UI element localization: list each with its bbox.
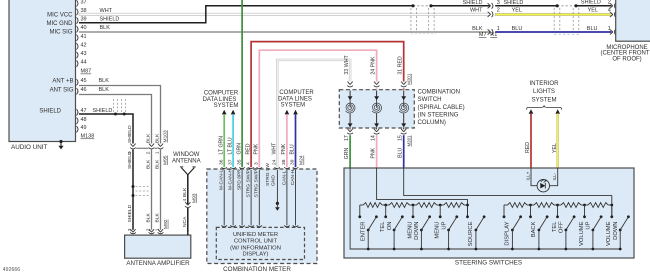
svg-text:M-CAN-H: M-CAN-H: [228, 168, 234, 190]
svg-text:COLUMN): COLUMN): [418, 119, 446, 126]
svg-text:MIC VCC: MIC VCC: [47, 12, 73, 18]
svg-text:UP: UP: [586, 221, 592, 229]
svg-text:ANT SIG: ANT SIG: [50, 87, 74, 93]
svg-text:WINDOW: WINDOW: [173, 152, 200, 158]
svg-text:COMBINATION METER: COMBINATION METER: [223, 266, 291, 273]
svg-text:PNK: PNK: [370, 56, 376, 67]
svg-text:CONTROL UNIT: CONTROL UNIT: [234, 239, 278, 245]
svg-text:COMPUTER: COMPUTER: [279, 90, 314, 96]
svg-text:35: 35: [236, 159, 242, 165]
svg-text:BLK: BLK: [146, 159, 152, 169]
svg-text:YEL: YEL: [588, 8, 598, 14]
svg-text:UNIFIED METER: UNIFIED METER: [233, 232, 278, 238]
svg-text:42: 42: [81, 42, 87, 48]
svg-text:YEL: YEL: [552, 143, 558, 153]
svg-text:ILL+: ILL+: [526, 171, 531, 180]
svg-text:BLK: BLK: [155, 213, 161, 223]
svg-text:4: 4: [245, 162, 251, 165]
svg-text:DISPLAY: DISPLAY: [505, 221, 511, 245]
svg-text:SHIELD: SHIELD: [127, 204, 133, 222]
svg-text:17: 17: [344, 135, 350, 141]
svg-text:BLK: BLK: [155, 159, 161, 169]
svg-text:ON: ON: [387, 222, 393, 231]
svg-text:LT GRN: LT GRN: [218, 136, 224, 155]
svg-text:ANTENNA AMPLIFIER: ANTENNA AMPLIFIER: [126, 260, 190, 267]
svg-text:SHIELD: SHIELD: [127, 125, 133, 143]
svg-text:BLK: BLK: [146, 133, 152, 143]
svg-text:CAN-H: CAN-H: [290, 169, 296, 185]
svg-text:SHIELD: SHIELD: [39, 108, 61, 114]
svg-text:1: 1: [155, 151, 161, 154]
svg-text:DOWN: DOWN: [613, 222, 619, 240]
svg-text:OFF: OFF: [559, 221, 565, 233]
svg-text:40: 40: [81, 25, 87, 31]
svg-text:M92: M92: [163, 219, 169, 229]
svg-text:48: 48: [81, 117, 87, 123]
svg-text:LIGHTS: LIGHTS: [533, 88, 555, 95]
svg-text:33: 33: [344, 69, 350, 75]
svg-text:MENU: MENU: [407, 222, 413, 239]
svg-text:43: 43: [81, 51, 87, 57]
svg-text:37: 37: [227, 159, 233, 165]
svg-text:M138: M138: [81, 134, 95, 140]
svg-text:BLK: BLK: [472, 26, 483, 32]
svg-text:WHT: WHT: [344, 55, 350, 68]
svg-text:WHT: WHT: [271, 142, 277, 155]
svg-text:VOLUME: VOLUME: [579, 221, 585, 246]
svg-text:MIC GND: MIC GND: [47, 21, 74, 27]
svg-text:SHIELD: SHIELD: [127, 151, 133, 169]
svg-text:MENU: MENU: [435, 222, 441, 239]
svg-text:41: 41: [81, 34, 87, 40]
svg-text:WHT: WHT: [470, 7, 483, 13]
svg-text:SWITCH: SWITCH: [418, 96, 442, 103]
svg-text:GND: GND: [270, 175, 276, 186]
svg-text:1: 1: [608, 26, 611, 32]
svg-text:M103: M103: [162, 130, 168, 143]
svg-text:BLU: BLU: [290, 144, 296, 154]
svg-text:BLK: BLK: [182, 187, 188, 197]
svg-text:31: 31: [398, 69, 404, 75]
svg-text:4: 4: [182, 199, 188, 202]
svg-text:39: 39: [290, 159, 296, 165]
svg-text:SYSTEM: SYSTEM: [280, 103, 305, 109]
svg-text:SHIELD: SHIELD: [581, 0, 601, 6]
svg-text:36: 36: [218, 159, 224, 165]
svg-text:ANTENNA: ANTENNA: [172, 159, 201, 165]
svg-text:TEL: TEL: [552, 221, 558, 232]
svg-text:BACK: BACK: [531, 221, 537, 237]
svg-text:1: 1: [497, 26, 500, 32]
svg-text:44: 44: [81, 60, 87, 66]
svg-text:BLU: BLU: [398, 148, 404, 158]
svg-text:STEERING SWITCHES: STEERING SWITCHES: [455, 260, 522, 267]
svg-text:STRG SW/P2: STRG SW/P2: [246, 167, 252, 197]
svg-text:49: 49: [81, 125, 87, 131]
svg-text:39: 39: [81, 17, 87, 23]
svg-text:BLK: BLK: [155, 133, 161, 143]
svg-text:RED: RED: [245, 143, 251, 154]
svg-text:AUDIO UNIT: AUDIO UNIT: [11, 144, 48, 151]
svg-text:(IN STEERING: (IN STEERING: [418, 111, 459, 118]
svg-text:GRN: GRN: [236, 143, 242, 155]
svg-text:SHIELD: SHIELD: [504, 0, 524, 6]
svg-text:PNK: PNK: [370, 147, 376, 158]
svg-text:STRG SW: STRG SW: [265, 163, 271, 186]
svg-text:RED: RED: [525, 142, 531, 153]
svg-text:BLK: BLK: [146, 213, 152, 223]
svg-text:24: 24: [370, 69, 376, 75]
svg-text:2: 2: [497, 7, 500, 13]
svg-text:CAN-L: CAN-L: [281, 170, 287, 185]
svg-text:MIC SIG: MIC SIG: [49, 30, 72, 36]
svg-text:PNK: PNK: [254, 143, 260, 154]
svg-text:3: 3: [497, 0, 500, 6]
svg-text:GRN: GRN: [344, 148, 350, 160]
svg-text:COMBINATION: COMBINATION: [418, 89, 461, 96]
svg-text:(W/ INFORMATION: (W/ INFORMATION: [230, 245, 281, 251]
svg-text:M201: M201: [407, 135, 412, 147]
svg-text:BLK: BLK: [100, 25, 111, 31]
svg-text:YEL: YEL: [512, 7, 522, 13]
svg-text:M24: M24: [299, 155, 305, 165]
svg-text:OF ROOF): OF ROOF): [612, 57, 641, 63]
svg-text:BLU: BLU: [512, 26, 523, 32]
svg-text:M87: M87: [81, 69, 92, 75]
svg-text:M-CAN-L: M-CAN-L: [219, 169, 225, 190]
svg-text:M93: M93: [192, 193, 198, 203]
svg-text:DATA LINES: DATA LINES: [278, 96, 312, 102]
svg-text:SPD 8PR: SPD 8PR: [237, 169, 243, 190]
svg-text:VOLUME: VOLUME: [606, 221, 612, 246]
svg-text:14: 14: [370, 135, 376, 141]
svg-text:38: 38: [281, 159, 287, 165]
svg-text:3: 3: [254, 162, 260, 165]
svg-text:NCA: NCA: [182, 216, 188, 227]
svg-text:UP: UP: [441, 221, 447, 229]
svg-text:TEL: TEL: [380, 221, 386, 232]
svg-text:SHIELD: SHIELD: [100, 17, 120, 23]
svg-text:SHIELD: SHIELD: [463, 0, 483, 6]
svg-text:2: 2: [608, 0, 611, 6]
svg-text:DATA LINES: DATA LINES: [203, 97, 237, 103]
svg-text:PNK: PNK: [281, 143, 287, 154]
svg-text:DOWN: DOWN: [414, 222, 420, 240]
svg-text:ENTER: ENTER: [360, 222, 366, 242]
svg-text:SYSTEM: SYSTEM: [214, 103, 239, 109]
svg-text:(SPIRAL CABLE): (SPIRAL CABLE): [418, 104, 465, 111]
svg-text:45: 45: [81, 78, 87, 84]
svg-text:46: 46: [81, 87, 87, 93]
svg-text:SOURCE: SOURCE: [468, 221, 474, 246]
svg-text:492666: 492666: [3, 267, 20, 273]
svg-text:BLU: BLU: [587, 26, 598, 32]
svg-text:2: 2: [146, 151, 152, 154]
svg-text:ANT +B: ANT +B: [52, 78, 73, 84]
svg-text:LT BLU: LT BLU: [227, 137, 233, 154]
svg-text:COMPUTER: COMPUTER: [204, 91, 239, 97]
svg-text:R1: R1: [490, 32, 497, 38]
svg-text:M201: M201: [407, 73, 412, 85]
svg-text:RED: RED: [398, 56, 404, 67]
svg-text:24: 24: [271, 159, 277, 165]
svg-text:37: 37: [81, 0, 87, 5]
svg-text:BLK: BLK: [99, 87, 110, 93]
svg-text:M7: M7: [479, 32, 487, 38]
svg-text:DISPLAY): DISPLAY): [243, 252, 269, 258]
svg-text:M95: M95: [162, 155, 168, 165]
svg-text:ILL-: ILL-: [552, 172, 557, 180]
svg-text:SYSTEM: SYSTEM: [531, 96, 556, 103]
svg-text:15: 15: [398, 135, 404, 141]
svg-text:BLK: BLK: [99, 78, 110, 84]
svg-text:STRG SW/P1: STRG SW/P1: [254, 167, 260, 197]
svg-text:INTERIOR: INTERIOR: [529, 80, 559, 87]
